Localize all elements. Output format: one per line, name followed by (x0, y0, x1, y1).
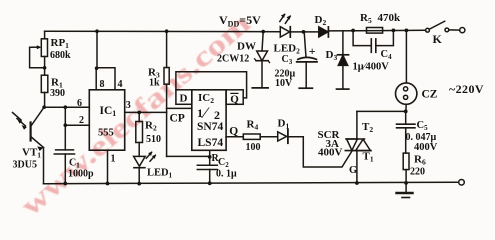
node output terminal bottom (459, 180, 465, 186)
svg-text:220: 220 (410, 167, 425, 178)
wire RP1 to R1 (44, 57, 46, 76)
svg-text:3DU5: 3DU5 (13, 160, 37, 171)
capacitor C2 (197, 151, 217, 184)
resistor R6 (403, 153, 409, 170)
wire reset RC row (167, 155, 210, 157)
svg-text:Q: Q (229, 125, 238, 137)
svg-text:680k: 680k (50, 50, 71, 61)
svg-text:400V: 400V (414, 142, 438, 153)
op IC1 555 box (89, 90, 124, 150)
wire D to Qbar feedback loop (176, 72, 247, 98)
zener DW (252, 32, 269, 88)
node R2 tap (137, 111, 141, 115)
svg-text:2: 2 (214, 108, 220, 122)
socket CZ (396, 30, 417, 111)
svg-text:4: 4 (118, 79, 123, 90)
svg-text:10V: 10V (275, 78, 293, 89)
phototransistor VT1 (13, 107, 45, 184)
diode D2 (319, 27, 329, 37)
wire left vertical drop to RP1 (44, 31, 46, 39)
node C3 rail junction (302, 30, 306, 34)
node R3 rail junction (165, 29, 169, 33)
svg-text:2: 2 (79, 115, 84, 126)
node R5 right junction (392, 29, 396, 33)
wire pin 6 of IC1 (44, 106, 89, 108)
svg-text:1000p: 1000p (68, 169, 94, 180)
node LED1 ground junction (137, 182, 141, 186)
ground (397, 183, 413, 198)
svg-text:3: 3 (126, 100, 131, 111)
svg-text:CP: CP (170, 113, 185, 125)
svg-text:100: 100 (246, 142, 261, 153)
node DW rail junction (261, 30, 265, 34)
svg-text:CZ: CZ (422, 89, 438, 101)
node pin1 ground junction (106, 182, 110, 186)
node R5 left junction (351, 29, 355, 33)
resistor R1 (41, 75, 48, 92)
wire pin8/4 loop (96, 68, 115, 90)
resistor R4 (243, 134, 260, 139)
capacitor C3 electrolytic (297, 32, 317, 88)
flip-flop IC2 box (192, 90, 226, 151)
wire pin 2 branch (65, 107, 89, 125)
svg-text:390: 390 (50, 88, 65, 99)
wire R1 to pin6 node (44, 93, 46, 108)
LED1 (134, 152, 156, 184)
svg-text:+: + (309, 44, 316, 58)
wire D1 to gate (288, 137, 352, 167)
potentiometer RP1 (30, 39, 48, 68)
capacitor C5 (397, 111, 415, 153)
pin box CP (167, 107, 192, 109)
svg-text:510: 510 (146, 134, 161, 145)
svg-text:LS74: LS74 (198, 137, 224, 149)
wire bottom ground rail (44, 182, 458, 183)
triac SCR (345, 111, 371, 183)
svg-text:Q: Q (230, 93, 239, 105)
node rail junction at x97 (95, 29, 99, 33)
wire top rail between LED2 and D2 (290, 31, 318, 33)
node C1 ground junction (63, 182, 67, 186)
svg-text:0. 1μ: 0. 1μ (216, 169, 237, 180)
node RP1 wiper junction (43, 66, 47, 70)
node R6 ground junction (404, 181, 408, 185)
svg-text:1μ∕400V: 1μ∕400V (353, 62, 390, 73)
svg-text:8: 8 (100, 79, 105, 90)
svg-text:1k: 1k (149, 78, 160, 89)
diode D1 (278, 130, 288, 144)
wire pin 1 to ground (107, 150, 109, 183)
svg-text:470k: 470k (378, 12, 402, 24)
node triac ground junction (355, 181, 359, 185)
svg-text:D: D (180, 93, 188, 105)
resistor R3 (164, 31, 169, 156)
wire R6 to ground rail (405, 170, 407, 183)
node pin6 left junction (42, 105, 46, 109)
node pin8 supply corner (95, 66, 99, 70)
svg-text:1: 1 (111, 154, 116, 165)
node C2 ground junction (208, 181, 212, 185)
svg-text:K: K (433, 32, 443, 46)
switch K (426, 21, 465, 33)
svg-text:400V: 400V (318, 147, 343, 159)
node C1/pin2 tap (64, 105, 68, 109)
node pin2/C1 junction (64, 123, 68, 127)
svg-text:VDD=5V: VDD=5V (219, 13, 261, 29)
wire top rail right segment (329, 29, 426, 32)
wire T2 to CZ bottom (357, 110, 406, 112)
diode D3 (337, 31, 349, 89)
wire Q output (226, 136, 243, 138)
svg-text:SN74: SN74 (197, 121, 223, 133)
svg-text:DW: DW (237, 41, 256, 53)
node C2 junction (208, 155, 212, 159)
svg-text:6: 6 (77, 98, 82, 109)
wire VDD drop to pins 8/4 (96, 31, 98, 68)
svg-text:G: G (349, 165, 357, 176)
pin box D (176, 90, 192, 105)
svg-text:1: 1 (197, 106, 203, 120)
svg-text:555: 555 (98, 128, 114, 139)
resistor R2 (136, 112, 143, 156)
node CZ top junction (405, 29, 409, 33)
wire top rail left segment (45, 30, 281, 33)
node CZ bottom junction (404, 110, 408, 114)
capacitor C4 loop (353, 30, 393, 52)
svg-text:2CW12: 2CW12 (217, 54, 249, 65)
LED2 (280, 14, 291, 38)
pin box Qbar (226, 90, 243, 105)
wire R4 to D1 (260, 136, 278, 138)
capacitor C1 (54, 125, 74, 183)
svg-text:~220V: ~220V (449, 82, 484, 96)
resistor R5 (367, 28, 383, 34)
wire pin 3 output (125, 111, 167, 113)
